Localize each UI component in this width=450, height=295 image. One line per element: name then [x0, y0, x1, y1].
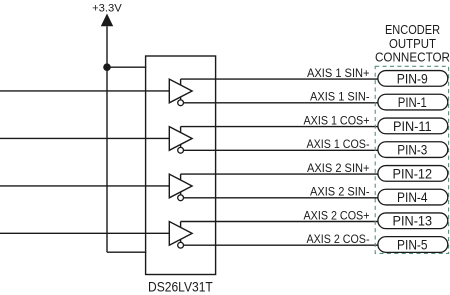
- svg-text:PIN-13: PIN-13: [393, 214, 433, 229]
- wire input 1: [0, 90, 169, 92]
- svg-text:AXIS 2 COS+: AXIS 2 COS+: [304, 208, 370, 222]
- power +3.3V arrow symbol: [101, 14, 113, 27]
- inversion bubble A: [178, 100, 184, 106]
- svg-text:PIN-9: PIN-9: [397, 71, 428, 86]
- wire AXIS 2 SIN-: [184, 197, 378, 199]
- wire input 2: [0, 137, 169, 139]
- pin PIN-4: [378, 189, 448, 205]
- pin PIN-9: [378, 71, 448, 87]
- driver buffer D: [169, 222, 192, 246]
- svg-text:AXIS 1 COS-: AXIS 1 COS-: [307, 137, 370, 151]
- pin PIN-1: [378, 94, 448, 110]
- inversion bubble C: [178, 195, 184, 201]
- wire input 4: [0, 232, 169, 234]
- svg-text:AXIS 1 COS+: AXIS 1 COS+: [304, 113, 370, 127]
- svg-text:AXIS 2 COS-: AXIS 2 COS-: [307, 232, 370, 246]
- connector title ENCODER OUTPUT CONNECTOR: [375, 22, 450, 65]
- pin PIN-11: [378, 118, 448, 134]
- wire +3.3V vertical rail: [106, 26, 108, 252]
- svg-text:ENCODER: ENCODER: [385, 22, 440, 37]
- IC U1 body DS26LV31T: [146, 56, 216, 275]
- wire AXIS 1 SIN-: [184, 102, 378, 104]
- wire +3.3V top branch to IC: [107, 66, 146, 68]
- svg-text:AXIS 2 SIN+: AXIS 2 SIN+: [307, 161, 370, 175]
- driver buffer B: [169, 127, 192, 151]
- svg-text:PIN-5: PIN-5: [397, 237, 428, 252]
- pin PIN-12: [378, 166, 448, 182]
- svg-text:CONNECTOR: CONNECTOR: [375, 50, 450, 65]
- wire input 3: [0, 185, 169, 187]
- inversion bubble D: [178, 242, 184, 248]
- wire AXIS 1 COS+: [181, 126, 378, 128]
- driver buffer A: [169, 79, 192, 103]
- junction dot on +3.3V rail: [103, 63, 111, 71]
- svg-text:PIN-12: PIN-12: [393, 166, 433, 181]
- svg-text:PIN-3: PIN-3: [397, 143, 427, 158]
- svg-text:OUTPUT: OUTPUT: [389, 36, 436, 51]
- wire AXIS 1 COS-: [184, 149, 378, 151]
- connector dashed outline: [375, 66, 448, 253]
- svg-text:AXIS 1 SIN+: AXIS 1 SIN+: [307, 66, 370, 80]
- svg-text:DS26LV31T: DS26LV31T: [148, 280, 213, 295]
- svg-text:PIN-1: PIN-1: [398, 95, 427, 110]
- wire +3.3V bottom branch to IC: [107, 251, 146, 253]
- pin PIN-3: [378, 142, 448, 158]
- inversion bubble B: [178, 147, 184, 153]
- wire AXIS 2 COS+: [181, 221, 378, 223]
- wire AXIS 2 SIN+: [181, 173, 378, 175]
- pin PIN-13: [378, 213, 448, 229]
- svg-text:AXIS 1 SIN-: AXIS 1 SIN-: [310, 90, 370, 104]
- wire AXIS 1 SIN+: [181, 78, 378, 80]
- driver buffer C: [169, 174, 192, 198]
- svg-text:+3.3V: +3.3V: [92, 3, 122, 15]
- pin PIN-5: [378, 237, 448, 253]
- wire AXIS 2 COS-: [184, 244, 378, 246]
- svg-text:PIN-11: PIN-11: [393, 119, 432, 134]
- svg-text:AXIS 2 SIN-: AXIS 2 SIN-: [310, 185, 370, 199]
- svg-text:PIN-4: PIN-4: [397, 190, 428, 205]
